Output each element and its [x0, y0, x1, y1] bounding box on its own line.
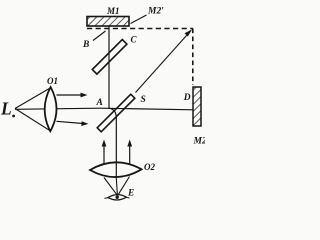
svg-text:M2: M2 [193, 136, 206, 146]
ray L to lens top [15, 88, 51, 109]
horizontal beam L to M2 [15, 108, 100, 109]
downward beam to O2 [115, 117, 117, 178]
beamsplitter S [97, 94, 135, 132]
svg-text:A: A [96, 98, 103, 108]
svg-text:S: S [141, 95, 146, 105]
ray L to lens bottom [15, 109, 51, 132]
lens O2 [90, 162, 142, 177]
pointer from B to M1 [93, 31, 106, 41]
up arrow ray right [129, 142, 131, 165]
svg-text:E: E [127, 189, 134, 199]
svg-text:B: B [82, 40, 89, 50]
vertical beam S to M1 [108, 26, 110, 108]
mirror M2 [193, 87, 201, 126]
up arrow ray left [103, 142, 105, 165]
virtual mirror M2' dashed line [87, 28, 193, 30]
svg-text:O1: O1 [47, 76, 58, 86]
eye E [108, 195, 126, 200]
converging ray center [116, 178, 117, 195]
collimated ray upper with arrow [57, 94, 84, 96]
lens O1 [45, 87, 57, 131]
svg-text:M2′: M2′ [147, 7, 164, 17]
compensator plate C [92, 40, 127, 75]
refracted bend arc at A [109, 108, 116, 117]
converging ray left [104, 178, 117, 196]
converging ray right [118, 177, 130, 196]
pointer to M2' [131, 15, 147, 24]
svg-text:D: D [183, 93, 191, 103]
svg-text:L: L [0, 99, 12, 119]
svg-text:M1: M1 [106, 6, 120, 16]
virtual ray S to M2' with arrow [136, 31, 192, 93]
mirror M1 [87, 17, 129, 27]
dashed vertical virtual path [192, 29, 194, 86]
svg-text:O2: O2 [144, 162, 155, 172]
svg-text:C: C [131, 35, 138, 45]
collimated ray lower with arrow [57, 121, 85, 123]
